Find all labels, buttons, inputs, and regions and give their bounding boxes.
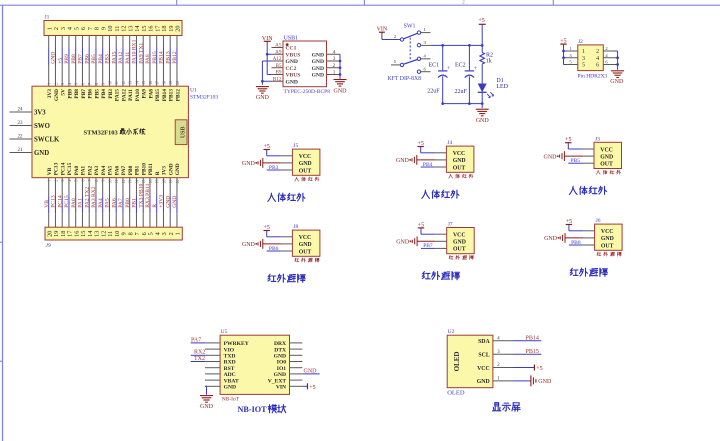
junction rail-EC2 (468, 44, 471, 47)
svg-text:GND: GND (224, 385, 236, 391)
wire U1 PB0 to J9 pin 8 (129, 178, 131, 197)
svg-text:6: 6 (596, 63, 599, 69)
wire U1 PA7 to J9 pin 9 (122, 178, 124, 197)
svg-text:18: 18 (162, 81, 166, 85)
border zone tick top 2 (363, 0, 365, 5)
ground symbol (USB1 right) (334, 79, 347, 81)
svg-text:GND: GND (453, 240, 466, 246)
capacitor EC2 (468, 45, 470, 70)
svg-text:+: + (447, 66, 451, 72)
svg-text:PB10: PB10 (142, 163, 148, 176)
svg-text:PB4: PB4 (423, 162, 433, 168)
wire SW1 pin3 to +5 rail (431, 44, 482, 46)
svg-text:1: 1 (582, 49, 585, 55)
display U2 body (447, 335, 493, 388)
wire J1 pin 18 to U1 PB14 (162, 36, 164, 49)
wire PB8 to J6 OUT (569, 244, 583, 246)
border zone tick top 3 (552, 0, 554, 5)
wire TX2 to U5 RXD (191, 361, 205, 363)
display U2 pin stubs (493, 340, 513, 342)
wire J1 pin 10 to U1 PB3 (108, 36, 110, 49)
svg-text:STM32F103: STM32F103 (190, 95, 218, 101)
svg-text:GND: GND (544, 154, 558, 160)
svg-text:PA10: PA10 (135, 89, 141, 101)
svg-text:GND: GND (396, 240, 410, 246)
wire U1 PA0 to J9 pin 16 (75, 178, 77, 197)
svg-text:PA0: PA0 (71, 198, 77, 208)
wire J1 pin 19 to U1 PB13 (169, 36, 171, 49)
svg-text:U5: U5 (221, 329, 228, 335)
svg-text:PC15: PC15 (64, 195, 70, 208)
wire J1 pin 1 to U1 3V3 (48, 36, 50, 49)
svg-text:DRX: DRX (274, 341, 286, 347)
svg-text:PB5: PB5 (94, 89, 100, 99)
wire U1 VB to J9 pin 20 (48, 178, 50, 197)
svg-text:PA7: PA7 (191, 337, 201, 343)
svg-text:GND: GND (299, 161, 312, 167)
svg-text:5: 5 (75, 83, 79, 85)
svg-text:GND: GND (600, 154, 613, 160)
svg-text:U2: U2 (448, 329, 455, 335)
svg-text:PA9: PA9 (142, 89, 148, 99)
resistor R2 (481, 45, 483, 52)
wire J1 pin 3 to U1 5V (61, 36, 63, 49)
wire +5 to J5 VCC (266, 150, 268, 156)
svg-text:PB3: PB3 (108, 89, 114, 99)
wire ground to J8 GND (263, 243, 281, 245)
ground symbol (USB1 left) (256, 86, 269, 88)
svg-text:8: 8 (95, 83, 99, 85)
svg-text:PA2: PA2 (88, 166, 94, 176)
svg-text:PB1: PB1 (135, 165, 141, 175)
wire U1 GND to J9 pin 1 (176, 178, 178, 197)
svg-text:VCC: VCC (453, 233, 466, 239)
svg-text:4: 4 (605, 53, 608, 58)
svg-text:PA1: PA1 (81, 166, 87, 176)
svg-text:STM32F103: STM32F103 (84, 129, 119, 136)
svg-text:GND: GND (200, 404, 214, 410)
wire J1 pin 11 to U1 PA15 (115, 36, 117, 49)
svg-text:VIN: VIN (276, 385, 286, 391)
svg-text:PB14: PB14 (159, 51, 165, 64)
svg-text:PB9: PB9 (64, 54, 70, 64)
mcu U1 STM32F103 body (32, 86, 188, 178)
wire J1 pin 9 to U1 PB4 (102, 36, 104, 49)
svg-text:GND: GND (312, 73, 324, 79)
svg-text:VIO: VIO (224, 347, 235, 353)
svg-text:USB: USB (180, 126, 186, 138)
svg-text:20: 20 (176, 81, 180, 85)
wire U1 PC15 to J9 pin 17 (68, 178, 70, 197)
svg-text:21: 21 (18, 148, 24, 153)
svg-text:2: 2 (394, 34, 397, 39)
svg-text:PB7: PB7 (81, 89, 87, 99)
svg-text:EC1: EC1 (429, 62, 440, 68)
wire U1 PB11 to J9 pin 5 (149, 178, 151, 197)
svg-text:7: 7 (88, 83, 92, 85)
svg-text:PWRKEY: PWRKEY (224, 341, 249, 347)
wire U1 PB10 to J9 pin 6 (142, 178, 144, 197)
svg-text:VCC: VCC (299, 235, 312, 241)
svg-text:5: 5 (394, 59, 397, 64)
svg-text:EC2: EC2 (455, 62, 466, 68)
caption 人体红外 (J4) (422, 190, 430, 198)
svg-text:PB12: PB12 (172, 51, 178, 64)
switch SW1 pole B (400, 63, 403, 66)
wire J1 pin 13 to U1 PA11 (129, 36, 131, 49)
svg-text:9: 9 (102, 83, 106, 85)
svg-text:PA11: PA11 (125, 52, 131, 64)
svg-text:PB14: PB14 (526, 335, 539, 341)
wire U1 PA6 to J9 pin 10 (115, 178, 117, 197)
svg-text:24: 24 (18, 108, 24, 113)
power flag +5 (U2) (533, 365, 535, 371)
svg-text:SWCLK: SWCLK (34, 136, 60, 143)
svg-text:3: 3 (582, 56, 585, 62)
wire U2 VCC to +5 (513, 367, 534, 369)
svg-text:TXD: TXD (224, 354, 236, 360)
svg-text:22uF: 22uF (427, 88, 440, 94)
svg-text:15: 15 (142, 81, 146, 85)
svg-text:PA15: PA15 (115, 89, 121, 101)
svg-text:KFT DIP-8X8: KFT DIP-8X8 (388, 76, 422, 82)
mcu U1 USB tab (175, 120, 187, 145)
svg-text:PB8: PB8 (71, 54, 77, 64)
svg-text:GND: GND (274, 372, 286, 378)
svg-text:V_EXT: V_EXT (268, 378, 287, 384)
wire J1 pin 15 to U1 PA9 (142, 36, 144, 49)
wire J1 pin 17 to U1 PB15 (156, 36, 158, 49)
svg-text:SWO: SWO (34, 123, 50, 130)
wire U1 PC14 to J9 pin 18 (61, 178, 63, 197)
power flag +5 (U5) (307, 383, 309, 389)
svg-text:OLED: OLED (447, 390, 465, 397)
svg-text:GND: GND (286, 59, 298, 65)
junction rail-EC1 (441, 44, 444, 47)
svg-text:GND: GND (312, 59, 324, 65)
svg-text:3: 3 (61, 83, 65, 85)
svg-text:GND: GND (396, 158, 410, 164)
wire U1 PA3 to J9 pin 13 (95, 178, 97, 197)
svg-text:2: 2 (54, 83, 58, 85)
svg-text:PB0: PB0 (125, 198, 131, 208)
svg-text:GND: GND (538, 379, 552, 385)
svg-text:GND: GND (477, 379, 490, 385)
usb USB1 left pin stubs (272, 47, 284, 49)
svg-text:6: 6 (81, 83, 85, 85)
junction GND-B12 (261, 80, 264, 83)
wire J2 even pins to ground (617, 51, 619, 70)
junction bus-EC1 (441, 102, 444, 105)
ground symbol (U5) (200, 395, 213, 397)
caption 显示屏 (492, 403, 500, 411)
svg-text:11: 11 (115, 81, 119, 85)
connector J4 body (446, 146, 474, 172)
svg-text:22: 22 (18, 135, 24, 140)
wire U1 PC13 to J9 pin 19 (54, 178, 56, 197)
svg-text:1k: 1k (486, 59, 492, 65)
svg-text:3V3: 3V3 (162, 166, 168, 176)
wire PB4 to J4 OUT (421, 166, 435, 168)
wire RX2 to U5 TXD (191, 354, 205, 356)
svg-text:1: 1 (569, 46, 572, 51)
svg-text:J4: J4 (447, 140, 452, 146)
svg-text:PB6: PB6 (88, 89, 94, 99)
svg-text:OUT: OUT (453, 247, 466, 253)
wire J1 pin 20 to U1 PB12 (176, 36, 178, 49)
svg-text:PC13: PC13 (54, 162, 60, 175)
svg-text:3V3: 3V3 (34, 109, 46, 116)
svg-text:5: 5 (569, 60, 572, 65)
wire U1 PA1 to J9 pin 15 (81, 178, 83, 197)
svg-text:U1: U1 (190, 88, 197, 94)
svg-text:1: 1 (175, 232, 182, 235)
wire PA7 to U5 PWRKEY (191, 342, 205, 344)
svg-text:+5: +5 (57, 58, 63, 64)
caption 人体红外 (J5) (268, 193, 276, 201)
svg-text:VCC: VCC (477, 366, 490, 372)
svg-text:R: R (152, 204, 158, 208)
wire J1 pin 14 to U1 PA10 (135, 36, 137, 49)
svg-text:OUT: OUT (299, 249, 312, 255)
svg-text:DTX: DTX (274, 347, 286, 353)
svg-text:NB-IOT: NB-IOT (238, 405, 268, 414)
svg-text:PB4: PB4 (98, 54, 104, 64)
svg-text:GND: GND (274, 354, 286, 360)
svg-text:GND: GND (453, 158, 466, 164)
svg-text:3: 3 (61, 180, 65, 182)
svg-text:PB11: PB11 (148, 163, 154, 175)
wire J1 pin 6 to U1 PB7 (81, 36, 83, 49)
border zone tick left 2 (0, 360, 3, 362)
usb USB1 pin1 mark (286, 43, 289, 46)
svg-text:+3V3: +3V3 (159, 195, 165, 208)
wire +5 to J4 VCC (420, 147, 422, 153)
svg-text:4: 4 (424, 53, 427, 58)
wire VIN to VBUS pins (266, 44, 268, 75)
svg-text:VCC: VCC (601, 229, 614, 235)
junction J2 pin3 (562, 56, 565, 59)
wire J1 pin 2 to U1 GND (54, 36, 56, 49)
connector J5 body (292, 149, 320, 175)
wire ground to J3 GND (564, 155, 582, 157)
svg-text:GND: GND (476, 118, 490, 124)
module U5 body (220, 335, 289, 394)
svg-text:PA5: PA5 (108, 166, 114, 176)
wire U2 SCL (513, 353, 541, 355)
junction GND bus 2 (339, 66, 342, 69)
svg-text:PB13: PB13 (169, 89, 175, 102)
svg-text:1: 1 (48, 83, 52, 85)
svg-text:VBAT: VBAT (224, 378, 239, 384)
svg-text:3: 3 (333, 56, 336, 62)
svg-text:CC1: CC1 (286, 46, 297, 52)
svg-text:PA10 RX1: PA10 RX1 (132, 39, 138, 63)
wire GND pins to ground (USB1 left) (262, 60, 271, 62)
usb USB1 right pin stubs (327, 53, 341, 55)
junction bus-EC2 (468, 102, 471, 105)
svg-text:PC13: PC13 (51, 195, 57, 208)
svg-text:PA12: PA12 (118, 51, 124, 63)
switch SW1 pin 3 stub (421, 44, 431, 46)
wire PB5 to J3 OUT (568, 162, 582, 164)
switch SW1 pin 4 stub (421, 58, 431, 60)
wire U5 right GND (302, 373, 319, 375)
svg-text:PB12: PB12 (175, 89, 181, 102)
svg-text:6: 6 (424, 66, 427, 71)
connector J5 pin stubs (281, 155, 293, 157)
svg-text:PA3: PA3 (94, 166, 100, 176)
svg-text:PA4: PA4 (98, 198, 104, 208)
connector J8 pin stubs (281, 236, 293, 238)
svg-text:19: 19 (169, 81, 173, 85)
connector J5 type text (295, 177, 299, 181)
svg-text:5: 5 (582, 63, 585, 69)
wire U1 PA5 to J9 pin 11 (108, 178, 110, 197)
wire caps bottom bus (443, 103, 483, 105)
connector J4 type text (449, 174, 453, 178)
switch SW1 extra contacts (417, 44, 420, 47)
connector J6 body (595, 224, 623, 250)
svg-text:PA5: PA5 (105, 198, 111, 208)
junction GND bus 3 (339, 73, 342, 76)
switch SW1 pole A (400, 38, 403, 41)
svg-text:PB13: PB13 (165, 51, 171, 64)
svg-text:4: 4 (333, 49, 336, 55)
wire ground to J5 GND (263, 162, 281, 164)
svg-text:PB3: PB3 (105, 54, 111, 64)
wire U1 PB1 to J9 pin 7 (135, 178, 137, 197)
svg-text:PB14: PB14 (162, 89, 168, 102)
svg-text:VBUS: VBUS (286, 73, 301, 79)
mcu U1 left pin 21 GND (10, 152, 33, 154)
caption 红外避障 (J7) (422, 272, 430, 279)
wire J1 pin 16 to U1 PA8 (149, 36, 151, 49)
svg-text:PB15: PB15 (155, 89, 161, 102)
svg-text:PA7: PA7 (118, 198, 124, 208)
connector J2 right pin stubs (603, 50, 615, 52)
connector J3 type text (596, 170, 600, 174)
svg-text:GND: GND (34, 150, 49, 157)
svg-text:J9: J9 (46, 243, 51, 249)
switch SW1 pin 6 stub (421, 71, 431, 73)
svg-text:PB1: PB1 (132, 198, 138, 208)
wire VIN to SW1 pin2 (381, 35, 383, 40)
svg-text:OUT: OUT (453, 165, 466, 171)
wire J1 pin 4 to U1 PB9 (68, 36, 70, 49)
svg-text:PA8: PA8 (148, 89, 154, 99)
svg-text:GND: GND (601, 236, 614, 242)
caption 红外避障 (J8) (268, 274, 276, 281)
svg-text:ADC: ADC (224, 372, 236, 378)
connector J2 body (578, 45, 604, 71)
connector J6 pin stubs (583, 230, 595, 232)
wire U1 GND to J9 pin 2 (169, 178, 171, 197)
svg-text:GND: GND (54, 89, 60, 101)
wire J1 pin 7 to U1 PB6 (88, 36, 90, 49)
svg-text:TX2: TX2 (194, 356, 205, 362)
svg-text:+: + (474, 66, 478, 72)
connector J1 (44, 21, 182, 36)
svg-text:D1: D1 (496, 78, 503, 84)
svg-text:J8: J8 (293, 224, 298, 230)
svg-text:J3: J3 (595, 136, 600, 142)
svg-text:TX3 PB10: TX3 PB10 (138, 184, 144, 208)
wire PB7 to J7 OUT (421, 247, 435, 249)
svg-text:SW1: SW1 (404, 24, 416, 30)
svg-text:PB5: PB5 (91, 54, 97, 64)
svg-text:3V3: 3V3 (47, 89, 53, 99)
svg-text:17: 17 (156, 81, 160, 85)
svg-text:PB15: PB15 (152, 51, 158, 64)
svg-text:GND: GND (286, 79, 298, 85)
border zone tick top 1 (176, 0, 178, 5)
svg-text:2: 2 (596, 49, 599, 55)
svg-text:4: 4 (68, 83, 72, 85)
svg-text:J5: J5 (293, 143, 298, 149)
wire U5 GND to ground (205, 385, 207, 387)
wire PB3 to J5 OUT (267, 169, 281, 171)
connector J2 left pin stubs (567, 50, 578, 52)
svg-text:GND: GND (312, 52, 324, 58)
svg-text:CC2: CC2 (286, 66, 297, 72)
svg-text:4: 4 (596, 56, 599, 62)
connector J6 type text (597, 252, 601, 256)
svg-text:OUT: OUT (299, 168, 312, 174)
svg-text:PA9 TX1: PA9 TX1 (138, 43, 144, 64)
capacitor EC1 (442, 45, 444, 70)
module U5 left pin stubs (205, 342, 220, 344)
sheet border frame (0, 4, 720, 6)
svg-text:SDA: SDA (478, 339, 490, 345)
svg-text:PB7: PB7 (423, 243, 433, 249)
connector J8 type text (295, 258, 299, 262)
svg-text:RX3 PB11: RX3 PB11 (145, 183, 151, 207)
svg-text:PA11: PA11 (128, 89, 134, 101)
connector J7 type text (449, 255, 453, 259)
svg-text:PA6: PA6 (115, 166, 121, 176)
svg-text:PA12: PA12 (121, 89, 127, 101)
svg-text:SCL: SCL (478, 353, 489, 359)
svg-text:16: 16 (149, 81, 153, 85)
connector J7 body (447, 228, 475, 254)
wire bus to ground (481, 104, 483, 108)
connector J8 body (292, 230, 320, 256)
svg-text:RX2: RX2 (194, 350, 205, 356)
wire U1 PA4 to J9 pin 12 (102, 178, 104, 197)
junction J2 pin1 (562, 50, 565, 53)
svg-text:3: 3 (424, 40, 427, 45)
svg-text:GND: GND (312, 66, 324, 72)
svg-text:6: 6 (605, 60, 608, 65)
svg-text:PA6: PA6 (111, 198, 117, 208)
svg-text:OUT: OUT (601, 243, 614, 249)
ground flag (U2) (530, 375, 532, 386)
junction bus-LED (481, 102, 484, 105)
svg-text:OUT: OUT (600, 162, 613, 168)
wire U2 SDA (513, 340, 541, 342)
svg-text:1: 1 (333, 70, 336, 76)
svg-text:GND: GND (169, 163, 175, 175)
wire U2 GND to ground (513, 380, 531, 382)
connector J7 pin stubs (435, 233, 447, 235)
svg-text:VB: VB (47, 167, 53, 175)
svg-text:VB: VB (44, 200, 50, 208)
svg-text:+5: +5 (536, 366, 542, 372)
svg-text:PB15: PB15 (526, 349, 539, 355)
diode D1 LED (478, 84, 487, 93)
svg-text:PB6: PB6 (269, 246, 279, 252)
